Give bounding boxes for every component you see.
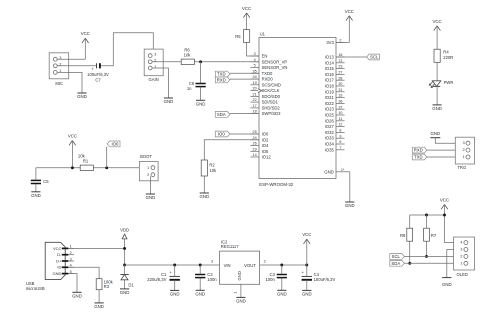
svg-text:9: 9 [339, 134, 341, 138]
pin 20 SCK/CLK of U1 [250, 90, 259, 92]
wire R6 to U1 SENSOR_VP [194, 61, 259, 63]
svg-text:VCC: VCC [242, 6, 251, 11]
resistor R2 10k [201, 160, 207, 176]
svg-text:ESP-WROOM-32: ESP-WROOM-32 [259, 182, 294, 187]
svg-text:35: 35 [253, 69, 257, 73]
ground C4 [302, 289, 311, 291]
wire R5 to U1 EN [247, 42, 259, 56]
svg-text:GND: GND [31, 193, 41, 198]
wire pullup rail [410, 214, 445, 216]
pin 14 IO12 of U1 [250, 156, 259, 158]
wire SCL to OLED [404, 255, 464, 257]
ground D1 [120, 288, 129, 290]
svg-text:R5: R5 [235, 34, 241, 39]
svg-text:100n: 100n [207, 277, 217, 282]
net label IO0 boot [107, 141, 120, 147]
pin 5 SENSOR_VN of U1 [250, 67, 259, 69]
svg-text:GND: GND [199, 194, 209, 199]
wire SDA to OLED [404, 262, 464, 264]
wire MIC pin1 to GND [57, 72, 82, 93]
svg-text:3: 3 [254, 52, 256, 56]
svg-text:37: 37 [338, 105, 342, 109]
wire C4 to GND [306, 280, 308, 291]
wire MIC pin2 to C7 [57, 65, 96, 67]
wire USB ID to R3 [68, 267, 99, 278]
pin 36 IO22 of U1 [336, 102, 345, 104]
ground C1 [170, 289, 179, 291]
net label TXD [215, 71, 230, 77]
node C4/VCC junction [305, 264, 308, 267]
pin 18 SWP/SD3 of U1 [250, 113, 259, 115]
svg-text:IO16: IO16 [325, 72, 335, 77]
svg-text:VCC: VCC [53, 246, 62, 251]
svg-text:IO34: IO34 [325, 142, 335, 147]
svg-text:1: 1 [460, 261, 462, 265]
ground C2 [196, 289, 205, 291]
svg-text:220R: 220R [443, 55, 453, 60]
svg-text:MIC: MIC [55, 81, 63, 86]
pin 30 IO18 of U1 [336, 85, 345, 87]
svg-text:34: 34 [253, 75, 257, 79]
svg-text:VCC: VCC [433, 19, 442, 24]
wire U1 IO2 to R2 [204, 140, 259, 160]
svg-text:BOOT: BOOT [140, 154, 152, 159]
svg-text:220u/6,3V: 220u/6,3V [147, 277, 166, 282]
svg-text:3: 3 [460, 248, 462, 252]
pin 34 RXD0 of U1 [250, 78, 259, 80]
svg-text:8: 8 [339, 129, 341, 133]
resistor R3 100k [96, 279, 102, 290]
wire R7 to rail [426, 215, 428, 228]
ground OLED [442, 277, 451, 279]
wire R8 to SDA [409, 241, 411, 263]
svg-text:GND: GND [146, 195, 156, 200]
svg-text:SCS/CMD: SCS/CMD [262, 82, 281, 87]
svg-text:6: 6 [339, 140, 341, 144]
svg-text:100n: 100n [265, 277, 275, 282]
net label TXD TRG [412, 154, 427, 160]
ground PWR [433, 104, 442, 106]
svg-text:4: 4 [460, 241, 462, 245]
svg-text:18: 18 [253, 110, 257, 114]
svg-text:10: 10 [338, 111, 342, 115]
svg-text:3: 3 [154, 52, 156, 56]
svg-text:13: 13 [338, 59, 342, 63]
pin 8 IO32 of U1 [336, 131, 345, 133]
net label RXD [215, 77, 230, 83]
pin 10 IO25 of U1 [336, 114, 345, 116]
wire rail to C5 [35, 168, 37, 180]
svg-text:IO17: IO17 [325, 78, 335, 83]
svg-text:IO2: IO2 [262, 137, 269, 142]
wire R3 to GND [98, 290, 100, 303]
node C1 junction [173, 264, 176, 267]
svg-text:TRG: TRG [457, 165, 466, 170]
svg-text:RXD: RXD [414, 148, 423, 153]
wire R1 to BOOT [93, 167, 150, 169]
pin 2 3V3 of U1 [336, 41, 345, 43]
svg-text:27: 27 [338, 71, 342, 75]
wire RXD to TRG [427, 149, 466, 151]
svg-text:23: 23 [338, 65, 342, 69]
svg-text:TXD0: TXD0 [262, 71, 273, 76]
wire USB VCC to VDD [68, 247, 124, 249]
LED PWR [432, 81, 441, 87]
pin 35 TXD0 of U1 [250, 72, 259, 74]
wire TXD to U1 [230, 72, 259, 74]
svg-text:17: 17 [253, 104, 257, 108]
node R7/SCL junction [425, 255, 428, 258]
ground R3 [95, 302, 104, 304]
pin 16 IO13 of U1 [336, 56, 345, 58]
net label SCL OLED [390, 254, 405, 260]
svg-text:1: 1 [463, 155, 465, 159]
svg-text:+: + [91, 67, 94, 72]
ground U1 [345, 201, 354, 203]
node IO0 junction [105, 166, 108, 169]
net label IO0 [215, 131, 230, 137]
svg-text:RXD0: RXD0 [262, 77, 274, 82]
wire U1 GND down [349, 172, 351, 202]
pin 21 SDO/SD0 of U1 [250, 95, 259, 97]
wire OLED pin3 to GND [447, 250, 464, 278]
svg-text:19: 19 [253, 81, 257, 85]
wire VCC to OLED pin4 [445, 242, 464, 244]
svg-text:REG1117: REG1117 [221, 244, 239, 249]
pin 6 IO34 of U1 [336, 143, 345, 145]
svg-text:GND: GND [277, 291, 287, 296]
svg-text:GND: GND [72, 293, 82, 298]
svg-text:+: + [302, 270, 305, 275]
svg-text:OLED: OLED [456, 272, 467, 277]
pin 3 EN of U1 [250, 55, 259, 57]
pin 13 IO14 of U1 [336, 62, 345, 64]
node VDD/D1 junction [123, 264, 126, 267]
wire rail to C4 [306, 265, 308, 276]
wire junction to IO0 flag [106, 147, 108, 168]
svg-text:SDO/SD0: SDO/SD0 [262, 94, 281, 99]
ground MIC [77, 92, 86, 94]
svg-text:24: 24 [253, 136, 257, 140]
wire VOUT rail [260, 264, 307, 266]
svg-text:ID: ID [57, 265, 61, 270]
svg-text:+: + [169, 270, 172, 275]
wire rail to C2 [199, 265, 201, 274]
pin 31 IO19 of U1 [336, 91, 345, 93]
svg-text:SCK/CLK: SCK/CLK [262, 88, 280, 93]
net label SDA OLED [390, 260, 405, 266]
svg-text:1n: 1n [187, 86, 192, 91]
wire rail to D1 [124, 265, 126, 275]
connector MIC [49, 53, 68, 79]
net label RXD TRG [412, 147, 427, 153]
svg-text:2: 2 [264, 259, 266, 263]
svg-text:GAIN: GAIN [148, 77, 158, 82]
svg-text:IO26: IO26 [325, 118, 335, 123]
capacitor C4 100uF/6,3V polarized [302, 275, 312, 277]
svg-text:2: 2 [463, 148, 465, 152]
pin 4 SENSOR_VP of U1 [250, 61, 259, 63]
pin 7 IO35 of U1 [336, 149, 345, 151]
wire TXD to TRG [427, 156, 466, 158]
ground USB [72, 291, 81, 293]
svg-text:VCC: VCC [302, 232, 311, 237]
svg-text:U1: U1 [260, 32, 266, 37]
wire power rail to VIN [125, 264, 220, 266]
wire C3 to GND [281, 278, 283, 291]
pin 33 IO21 of U1 [336, 97, 345, 99]
svg-text:3: 3 [211, 259, 213, 263]
node junction R6/C6 [199, 60, 202, 63]
svg-text:R2: R2 [209, 163, 215, 168]
svg-text:VCC: VCC [68, 134, 77, 139]
svg-text:D-: D- [57, 252, 62, 257]
pin 24 IO2 of U1 [250, 139, 259, 141]
node VCC rail junction [443, 214, 446, 217]
svg-text:R1: R1 [83, 159, 89, 164]
svg-text:IO14: IO14 [325, 60, 335, 65]
svg-text:SENSOR_VN: SENSOR_VN [262, 65, 288, 70]
svg-text:31: 31 [338, 88, 342, 92]
wire R4 to LED [436, 62, 438, 81]
node VDD/VCC junction [123, 247, 126, 250]
connector USB microUSB [45, 242, 65, 279]
svg-text:VOUT: VOUT [244, 263, 256, 268]
wire rail to C1 [174, 265, 176, 276]
pin 27 IO16 of U1 [336, 73, 345, 75]
pin 22 SDI/SD1 of U1 [250, 101, 259, 103]
wire 3V3 to U1 [336, 41, 349, 43]
svg-text:VCC: VCC [440, 197, 449, 202]
svg-text:IO12: IO12 [262, 155, 272, 160]
svg-text:GND: GND [236, 298, 246, 303]
clock marker U1 SCK/CLK [258, 89, 262, 93]
svg-text:SDA: SDA [217, 112, 226, 117]
resistor R8 [407, 228, 413, 241]
svg-text:33: 33 [338, 94, 342, 98]
wire GAIN pin2 to R6 [152, 61, 181, 63]
svg-text:14: 14 [253, 153, 257, 157]
svg-text:100uF/6,3V: 100uF/6,3V [314, 277, 336, 282]
svg-text:GND: GND [302, 291, 312, 296]
wire C2 to GND [199, 278, 201, 291]
pin 29 IO5 of U1 [250, 150, 259, 152]
svg-text:GND: GND [164, 99, 174, 104]
pin 1* GND of U1 [336, 171, 350, 173]
wire C7 to GAIN pin3 [101, 33, 154, 66]
svg-text:5: 5 [254, 64, 256, 68]
svg-text:10k: 10k [209, 168, 217, 173]
svg-text:PWR: PWR [444, 80, 454, 85]
svg-text:R7: R7 [431, 233, 437, 238]
svg-text:IO27: IO27 [325, 124, 335, 129]
wire boot rail left [36, 167, 80, 169]
svg-text:IO0: IO0 [262, 132, 269, 137]
svg-text:10k: 10k [184, 53, 192, 58]
svg-text:100uF/6,3V: 100uF/6,3V [87, 72, 109, 77]
pin 23 IO15 of U1 [336, 68, 345, 70]
svg-text:IO0: IO0 [218, 132, 225, 137]
svg-text:IO4: IO4 [262, 143, 269, 148]
svg-text:IO13: IO13 [325, 55, 335, 60]
svg-text:C7: C7 [95, 78, 101, 83]
svg-text:C5: C5 [43, 179, 49, 184]
svg-text:3V3: 3V3 [326, 40, 334, 45]
svg-text:11: 11 [338, 117, 342, 121]
svg-text:22: 22 [253, 98, 257, 102]
svg-text:16: 16 [338, 53, 342, 57]
svg-text:36: 36 [338, 100, 342, 104]
svg-text:GND: GND [170, 291, 180, 296]
svg-text:GND: GND [430, 131, 440, 136]
svg-text:IO25: IO25 [325, 113, 335, 118]
svg-text:IO33: IO33 [325, 136, 335, 141]
svg-text:GND: GND [120, 290, 130, 295]
svg-text:GND: GND [237, 271, 242, 280]
svg-text:VCC: VCC [345, 9, 354, 14]
svg-text:VDD: VDD [120, 227, 129, 232]
svg-text:SHD/SD2: SHD/SD2 [262, 105, 281, 110]
wire TRG GND [435, 138, 466, 144]
pin 17 SHD/SD2 of U1 [250, 107, 259, 109]
net label SCL [367, 54, 380, 60]
svg-text:GND: GND [94, 304, 104, 309]
wire GAIN pin1 to GND [152, 68, 168, 98]
wire rail to C3 [281, 265, 283, 274]
wire C1 to GND [174, 280, 176, 291]
svg-text:IO19: IO19 [325, 89, 335, 94]
pin 25 IO0 of U1 [250, 133, 259, 135]
ground GAIN [164, 97, 173, 99]
capacitor C2 100n [195, 274, 205, 276]
svg-text:1: 1 [147, 166, 149, 170]
pin 19 SCS/CMD of U1 [250, 84, 259, 86]
svg-text:GND: GND [442, 282, 452, 287]
svg-text:2: 2 [460, 254, 462, 258]
svg-text:7: 7 [339, 146, 341, 150]
wire RXD to U1 [230, 78, 259, 80]
pin 11 IO26 of U1 [336, 120, 345, 122]
node R7 top junction [425, 214, 428, 217]
svg-text:IO23: IO23 [325, 107, 335, 112]
svg-text:21: 21 [253, 93, 257, 97]
resistor R7 [424, 228, 430, 241]
svg-text:microUSB: microUSB [26, 286, 45, 291]
pin 26 IO4 of U1 [250, 145, 259, 147]
ground IC2 [236, 296, 245, 298]
svg-text:SDA: SDA [391, 261, 400, 266]
svg-text:20: 20 [253, 87, 257, 91]
svg-text:IO18: IO18 [325, 84, 335, 89]
node C3 junction [280, 264, 283, 267]
wire BOOT pin2 to GND [149, 176, 151, 194]
connector GAIN [144, 49, 163, 76]
svg-text:12: 12 [338, 123, 342, 127]
wire IC2 GND [240, 284, 242, 297]
svg-text:GND: GND [324, 169, 334, 174]
connector TRG [455, 137, 474, 164]
svg-text:29: 29 [253, 147, 257, 151]
svg-text:1: 1 [234, 292, 238, 294]
svg-text:1*: 1* [341, 168, 345, 172]
svg-text:R8: R8 [400, 233, 406, 238]
svg-text:25: 25 [253, 130, 257, 134]
svg-text:2: 2 [339, 39, 341, 43]
svg-text:2: 2 [147, 173, 149, 177]
node C2 junction [199, 264, 202, 267]
svg-text:IO0: IO0 [111, 141, 118, 146]
svg-text:IO35: IO35 [325, 147, 335, 152]
ground R2 [200, 192, 209, 194]
wire junction to C6 [200, 62, 202, 83]
wire SDA to U1 [230, 113, 259, 115]
svg-text:VIN: VIN [224, 263, 231, 268]
svg-text:28: 28 [338, 76, 342, 80]
diode D1 [120, 274, 128, 276]
svg-text:SENSOR_VP: SENSOR_VP [262, 59, 288, 64]
svg-text:IO22: IO22 [325, 101, 335, 106]
svg-text:3: 3 [463, 141, 465, 145]
wire rail to R8 [409, 215, 411, 228]
ground C6 [196, 99, 205, 101]
svg-text:IO32: IO32 [325, 130, 335, 135]
svg-text:TXD: TXD [414, 155, 423, 160]
svg-text:4: 4 [254, 58, 256, 62]
capacitor C3 100n [277, 274, 287, 276]
svg-text:26: 26 [253, 142, 257, 146]
pin 9 IO33 of U1 [336, 137, 345, 139]
node VCC/rail junction [71, 166, 74, 169]
pin 12 IO27 of U1 [336, 126, 345, 128]
node SCL flag wire [336, 56, 367, 58]
node R8/SDA junction [408, 262, 411, 265]
svg-text:SWP/SD3: SWP/SD3 [262, 111, 282, 116]
wire IO0 to U1 [230, 133, 259, 135]
svg-text:GND: GND [196, 101, 206, 106]
resistor R4 220R [434, 49, 440, 62]
wire D1 to GND [124, 280, 126, 289]
pin 37 IO23 of U1 [336, 108, 345, 110]
svg-text:IO21: IO21 [325, 95, 335, 100]
svg-text:GND: GND [345, 203, 355, 208]
svg-text:30: 30 [338, 82, 342, 86]
svg-text:EN: EN [262, 54, 268, 59]
wire C5 to GND [35, 184, 37, 192]
connector OLED [454, 237, 475, 270]
wire USB GND down [68, 274, 77, 293]
svg-text:SCL: SCL [370, 55, 379, 60]
wire C6 to GND [200, 87, 202, 100]
capacitor C7 100uF/6,3V polarized [96, 63, 98, 68]
svg-text:GND: GND [77, 94, 87, 99]
ground BOOT [146, 193, 155, 195]
svg-text:RXD: RXD [217, 77, 226, 82]
svg-text:GND: GND [53, 271, 62, 276]
ground C5 [31, 191, 40, 193]
svg-text:GND: GND [195, 291, 205, 296]
svg-text:D+: D+ [56, 258, 62, 263]
svg-text:IO15: IO15 [325, 66, 335, 71]
pin 28 IO17 of U1 [336, 79, 345, 81]
net label SDA [215, 112, 230, 118]
svg-text:R3: R3 [104, 284, 110, 289]
svg-text:SDI/SD1: SDI/SD1 [262, 100, 279, 105]
ground C3 [277, 289, 286, 291]
svg-text:D1: D1 [128, 282, 134, 287]
svg-text:SCL: SCL [392, 254, 401, 259]
wire MIC pin3 to VCC [57, 58, 85, 60]
svg-text:R4: R4 [443, 49, 449, 54]
